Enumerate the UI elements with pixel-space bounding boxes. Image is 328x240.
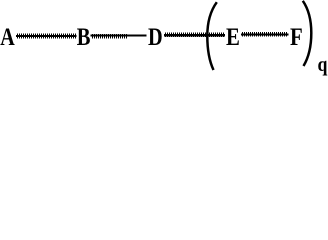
- svg-text:D: D: [148, 23, 163, 52]
- wire E-F: [241, 32, 289, 36]
- left parenthesis: [207, 2, 217, 70]
- svg-text:E: E: [226, 23, 240, 52]
- right parenthesis: [303, 1, 312, 66]
- svg-text:B: B: [77, 23, 91, 52]
- svg-text:F: F: [290, 23, 303, 52]
- wire A-B: [16, 34, 77, 39]
- wire D-(E: [164, 33, 225, 37]
- svg-text:q: q: [318, 54, 328, 77]
- wire B-D: [91, 34, 147, 38]
- svg-text:A: A: [0, 21, 15, 50]
